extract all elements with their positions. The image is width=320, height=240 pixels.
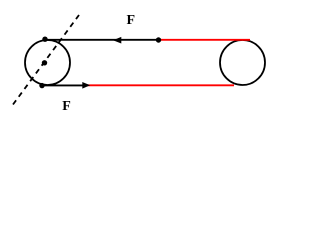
svg-text:F: F	[127, 13, 136, 28]
svg-text:F: F	[62, 99, 71, 114]
